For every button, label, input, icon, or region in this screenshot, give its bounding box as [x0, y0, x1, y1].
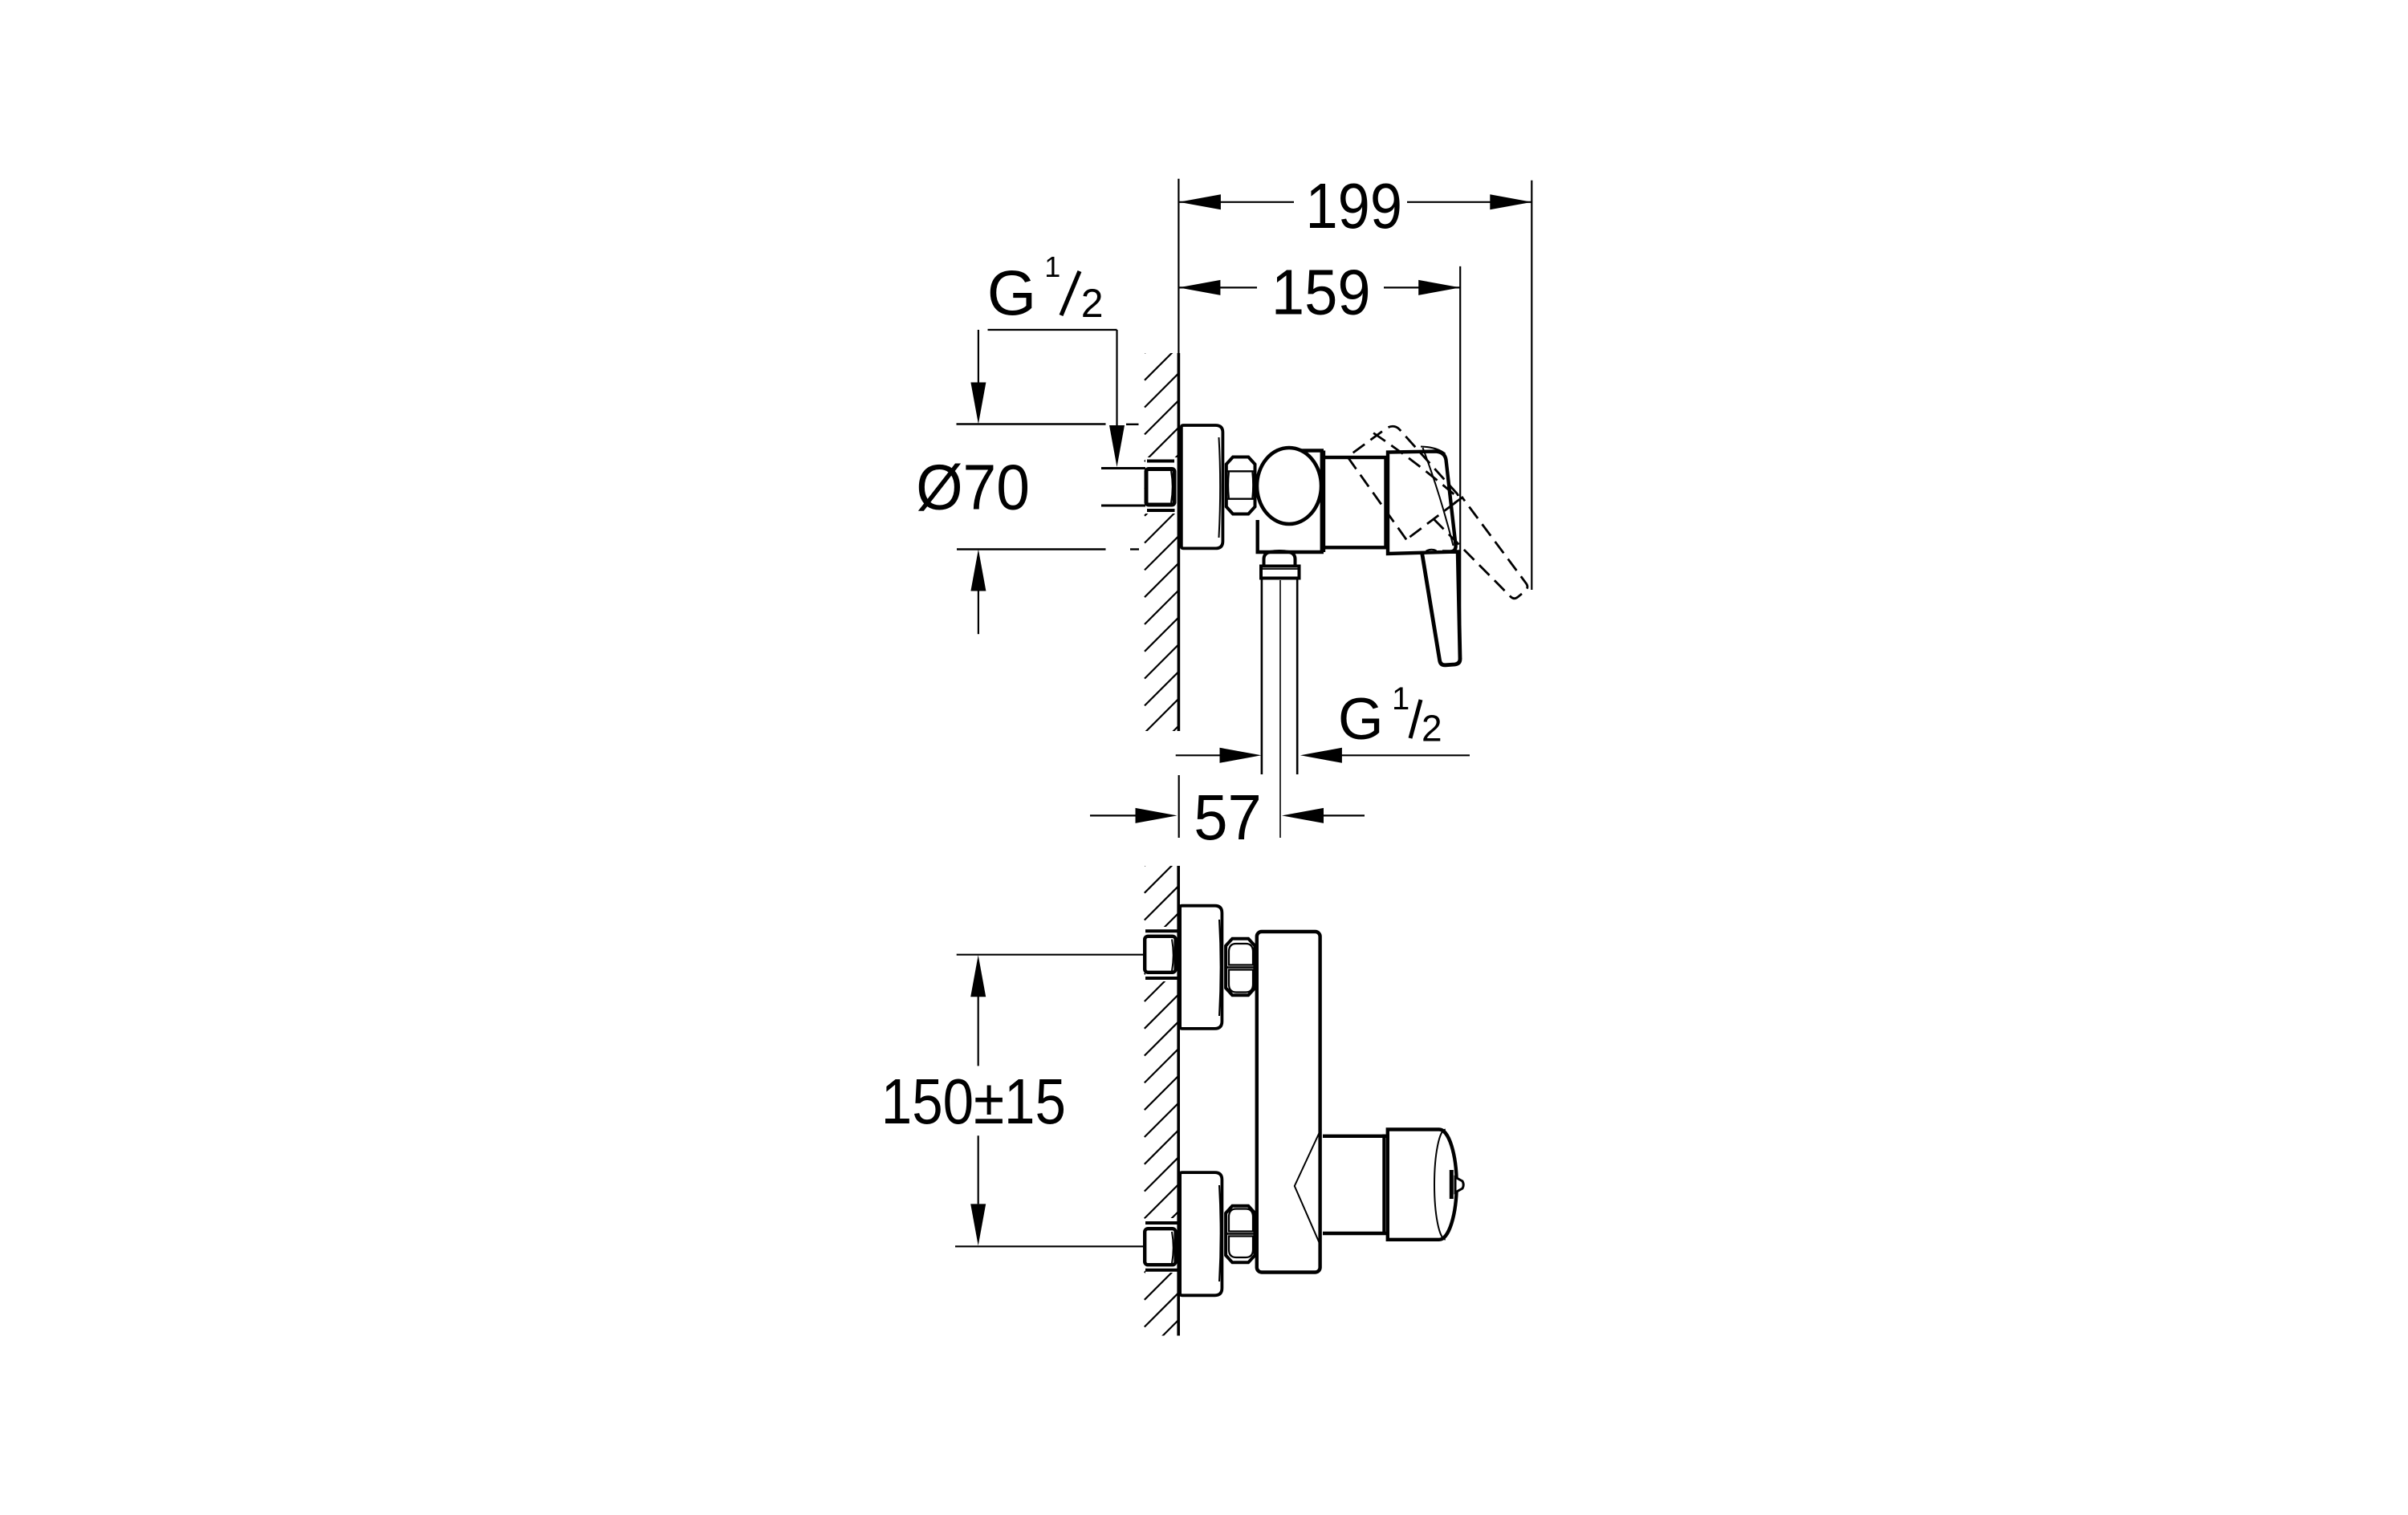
dimension 159: right extension line — [1459, 266, 1461, 654]
upper supply square (plan) — [1145, 936, 1175, 973]
svg-text:57: 57 — [1194, 781, 1262, 853]
cartridge neck (plan) — [1323, 1135, 1386, 1138]
pipe shoulder lines (top view) — [1147, 460, 1174, 463]
dimension 57: dimension line with arrows — [1090, 814, 1138, 816]
dimension 199: dimension line with arrows — [1179, 201, 1294, 203]
G 1/2 bracket (top label leader) — [988, 329, 1117, 331]
faucet body (plan) — [1257, 932, 1320, 1273]
svg-text:2: 2 — [1422, 707, 1442, 749]
dashed lever (raised position) — [1345, 412, 1530, 631]
lever blade edge — [1423, 448, 1454, 546]
lower union nut (plan) — [1226, 1206, 1255, 1263]
svg-text:Ø70: Ø70 — [916, 452, 1030, 523]
knob rim ellipse — [1434, 1130, 1446, 1240]
dimension 199: right extension line — [1531, 181, 1532, 590]
cartridge housing (top view) — [1324, 457, 1386, 547]
lower escutcheon flange (plan) — [1180, 1172, 1222, 1295]
hose centerline — [1279, 580, 1281, 838]
upper escutcheon flange (plan) — [1180, 906, 1222, 1029]
upper union nut (plan) — [1226, 939, 1255, 996]
dimension 57: value label — [1194, 781, 1262, 853]
escutcheon flange (top view) — [1182, 425, 1223, 548]
dimension diameter 70: lower arrow with tail — [978, 591, 979, 634]
flange face arc — [1219, 437, 1221, 538]
lever blade tip — [1421, 447, 1446, 454]
wall face line (bottom view) — [1177, 866, 1180, 1336]
lever neck curve — [1426, 550, 1437, 551]
svg-text:2: 2 — [1081, 281, 1104, 326]
svg-text:159: 159 — [1271, 257, 1371, 328]
hose union nut — [1261, 567, 1300, 579]
svg-text:199: 199 — [1306, 171, 1403, 242]
lever hub — [1388, 452, 1456, 554]
white backing behind inlet fitting (top view) — [1145, 457, 1178, 514]
white backing behind S-unions (bottom view) — [1145, 927, 1178, 981]
dimension 57: extension line at wall — [1178, 775, 1180, 838]
dimension diameter 70: lower extension line — [957, 548, 1106, 550]
shower outlet stub — [1264, 551, 1296, 565]
inlet square nipple (top view) — [1146, 469, 1174, 506]
union nut (top view) — [1226, 457, 1255, 514]
lever handle — [1422, 552, 1461, 665]
inlet nipple chamfer arc — [1171, 471, 1173, 503]
wall face line (top view) — [1178, 353, 1181, 731]
dimension 199: left extension line — [1178, 179, 1179, 353]
dimension 150+-15: dimension line with arrows — [978, 997, 979, 1066]
svg-text:150±15: 150±15 — [881, 1065, 1066, 1137]
dimension diameter 70: value label — [916, 452, 1030, 523]
svg-text:G: G — [1338, 687, 1384, 752]
concealed supply pipe (top view) — [1101, 467, 1145, 469]
G 1/2 hose dimension line — [1176, 754, 1222, 756]
shower hose — [1261, 580, 1263, 775]
dimension diameter 70: upper extension line — [957, 423, 1106, 424]
wall hatching (top view) — [1145, 319, 1178, 760]
wall hatching (bottom view) — [1145, 832, 1178, 1355]
dimension 150+-15: value label — [881, 1065, 1066, 1137]
lower pipe shoulder lines (plan) — [1145, 1221, 1178, 1225]
temperature stop pin — [1450, 1170, 1454, 1199]
lower supply square (plan) — [1145, 1229, 1175, 1265]
upper pipe shoulder lines (plan) — [1145, 929, 1178, 932]
svg-text:G: G — [987, 257, 1036, 328]
dimension 150+-15: lower extension line — [955, 1245, 1143, 1247]
svg-text:1: 1 — [1392, 681, 1409, 717]
svg-text:1: 1 — [1044, 250, 1060, 283]
dimension 159: dimension line with arrows — [1178, 286, 1257, 288]
conical transition chevron — [1295, 1129, 1321, 1244]
dimension 199: value label — [1306, 171, 1403, 242]
dimension 159: value label — [1271, 257, 1371, 328]
ball joint — [1257, 448, 1321, 524]
handle knob (plan) — [1382, 1135, 1385, 1236]
valve body (top view) — [1258, 451, 1322, 553]
dimension 150+-15: upper extension line — [957, 954, 1143, 956]
